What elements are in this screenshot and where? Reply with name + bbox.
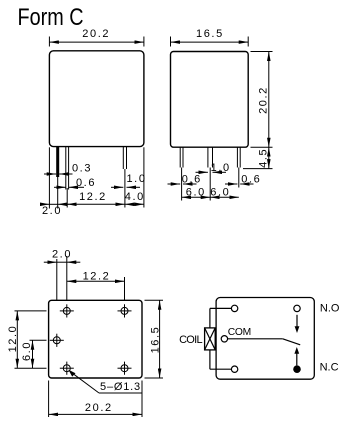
svg-text:2.0: 2.0 [52, 248, 72, 260]
svg-text:4.0: 4.0 [125, 191, 145, 203]
svg-text:Form C: Form C [18, 4, 84, 31]
svg-text:20.2: 20.2 [85, 402, 113, 414]
svg-text:N.O: N.O [320, 303, 340, 315]
svg-text:16.5: 16.5 [196, 28, 224, 40]
svg-text:2.0: 2.0 [42, 205, 62, 217]
svg-text:6.0: 6.0 [210, 186, 230, 198]
svg-text:0.6: 0.6 [241, 174, 261, 186]
svg-text:16.5: 16.5 [149, 326, 161, 354]
svg-text:1.0: 1.0 [211, 162, 231, 174]
svg-text:6.0: 6.0 [186, 186, 206, 198]
svg-text:6.0: 6.0 [21, 341, 33, 361]
svg-text:5–Ø1.3: 5–Ø1.3 [100, 381, 141, 393]
svg-text:4.5: 4.5 [258, 148, 270, 168]
svg-text:0.3: 0.3 [72, 163, 92, 175]
svg-text:0.6: 0.6 [76, 177, 96, 189]
svg-text:12.2: 12.2 [83, 271, 111, 283]
svg-text:20.2: 20.2 [82, 28, 110, 40]
svg-text:12.2: 12.2 [79, 191, 107, 203]
svg-text:1.0: 1.0 [126, 173, 146, 185]
svg-text:0.6: 0.6 [182, 174, 202, 186]
svg-text:20.2: 20.2 [258, 86, 270, 114]
svg-text:12.0: 12.0 [7, 325, 19, 353]
svg-text:N.C: N.C [320, 361, 339, 373]
svg-text:COIL: COIL [179, 334, 202, 346]
svg-text:COM: COM [228, 327, 251, 338]
